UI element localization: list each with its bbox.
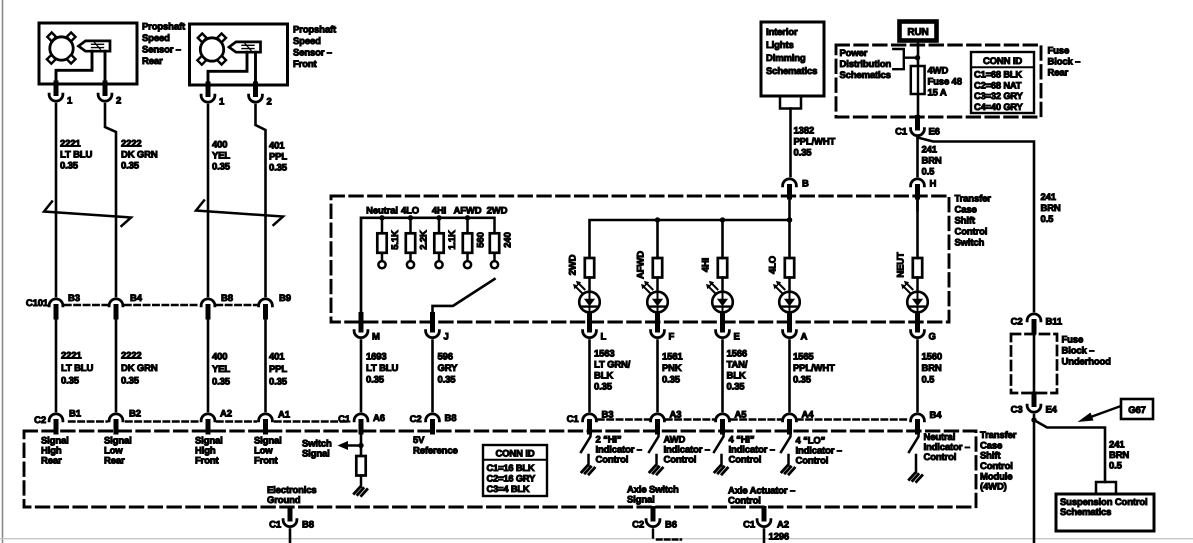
CONN ID table (module connectors) xyxy=(483,445,547,496)
svg-text:0.35: 0.35 xyxy=(594,382,613,393)
svg-text:C1: C1 xyxy=(895,127,908,138)
svg-text:241: 241 xyxy=(1041,192,1057,203)
svg-text:Control: Control xyxy=(728,496,761,507)
svg-text:0.35: 0.35 xyxy=(366,375,385,386)
switch pin G xyxy=(911,315,936,343)
svg-text:Fuse: Fuse xyxy=(1048,46,1070,57)
dashed stub below B6 xyxy=(653,530,681,540)
svg-text:1693: 1693 xyxy=(366,352,387,363)
connector pin B2 xyxy=(109,409,141,433)
label: Interior Lights Dimming Schematics xyxy=(766,27,817,77)
svg-text:B8: B8 xyxy=(302,520,314,531)
wire label 400 YEL 0.35 (lower) xyxy=(212,352,231,388)
svg-text:1560: 1560 xyxy=(922,352,943,363)
arrow from G67 to ground point xyxy=(1078,407,1120,423)
svg-text:0.35: 0.35 xyxy=(61,376,80,387)
label: Power Distribution Schematics xyxy=(840,48,892,81)
module connector pin B8 xyxy=(410,413,457,432)
svg-text:TAN/: TAN/ xyxy=(727,360,748,371)
switch pin L xyxy=(583,315,607,343)
wire label 1565 PPL/WHT 0.35 xyxy=(793,352,835,386)
wire 2222 (lower) xyxy=(115,317,118,411)
svg-text:2222: 2222 xyxy=(121,351,142,362)
svg-text:Rear: Rear xyxy=(142,56,163,67)
wire from pin L down xyxy=(588,341,591,412)
svg-text:Front: Front xyxy=(254,456,279,467)
svg-text:C2: C2 xyxy=(632,520,644,531)
wire label 1560 BRN 0.5 xyxy=(922,352,943,386)
indicator LED branch NEUT: resistor + LED xyxy=(896,200,928,316)
svg-text:Power: Power xyxy=(840,48,868,59)
svg-text:BRN: BRN xyxy=(1041,203,1061,214)
svg-text:J: J xyxy=(444,332,449,343)
label: Switch Signal xyxy=(302,439,332,460)
svg-text:Propshaft: Propshaft xyxy=(293,25,337,36)
module input label Low Front xyxy=(254,436,282,467)
resistor 5.1K (R Neutral) xyxy=(377,215,401,268)
svg-text:YEL: YEL xyxy=(212,364,230,375)
svg-text:C1=16 BLK: C1=16 BLK xyxy=(487,463,535,473)
connector C101 pin B4 xyxy=(109,293,143,317)
svg-text:Schematics: Schematics xyxy=(766,66,817,77)
svg-text:B9: B9 xyxy=(279,293,291,304)
svg-text:Control: Control xyxy=(955,227,988,238)
svg-text:PPL/WHT: PPL/WHT xyxy=(793,363,835,374)
svg-text:0.5: 0.5 xyxy=(1109,461,1123,472)
svg-text:(4WD): (4WD) xyxy=(980,482,1007,493)
svg-text:B8: B8 xyxy=(221,293,233,304)
svg-text:LT BLU: LT BLU xyxy=(60,150,92,161)
svg-text:1563: 1563 xyxy=(594,349,615,360)
label: Transfer Case Shift Control Module (4WD) xyxy=(980,430,1017,493)
svg-text:A2: A2 xyxy=(777,520,789,531)
wire label 1566 TAN/BLK 0.35 xyxy=(727,349,748,393)
switch pin F xyxy=(651,315,675,343)
svg-text:Transfer: Transfer xyxy=(955,194,992,205)
svg-text:PPL/WHT: PPL/WHT xyxy=(794,137,836,148)
svg-text:RUN: RUN xyxy=(907,27,928,38)
svg-text:C1: C1 xyxy=(743,520,756,531)
svg-text:C1: C1 xyxy=(338,414,351,425)
4 "LO" indicator control switch + ground xyxy=(781,432,795,474)
svg-text:0.35: 0.35 xyxy=(793,375,812,386)
wire label 1561 PNK 0.35 xyxy=(662,352,683,386)
svg-text:C3: C3 xyxy=(1011,405,1023,416)
svg-text:BLK: BLK xyxy=(727,371,746,382)
svg-text:Signal: Signal xyxy=(627,495,655,506)
svg-text:5.1K: 5.1K xyxy=(390,230,401,250)
svg-text:0.35: 0.35 xyxy=(727,382,746,393)
svg-text:C2: C2 xyxy=(410,414,422,425)
wire through underhood fuse block xyxy=(1033,332,1036,396)
module connector pin A5 xyxy=(716,410,748,433)
label: 2 "HI" Indicator Control xyxy=(596,435,642,466)
connector C2 label (module) xyxy=(34,415,46,426)
ground G67 box xyxy=(1121,399,1153,419)
connector C101 pin B8 xyxy=(201,293,233,317)
connector C2 B6 (axle switch signal) xyxy=(632,509,677,531)
svg-text:Neutral: Neutral xyxy=(366,206,398,217)
in-line connector C101 label xyxy=(26,298,49,309)
svg-text:C1: C1 xyxy=(567,414,580,425)
svg-text:0.5: 0.5 xyxy=(1041,214,1055,225)
connector C2 B11 xyxy=(1011,314,1063,332)
wire label 241 BRN 0.5 xyxy=(922,145,942,178)
svg-text:H: H xyxy=(930,179,937,190)
propshaft speed sensor - rear xyxy=(39,23,137,84)
svg-text:DK GRN: DK GRN xyxy=(121,150,158,161)
svg-text:1561: 1561 xyxy=(662,352,683,363)
svg-text:B3: B3 xyxy=(68,293,80,304)
indicator LED branch 4HI: resistor + LED xyxy=(701,220,733,316)
wire pin H to NEUT branch xyxy=(916,197,919,210)
connector C1 B8 (electronics ground) xyxy=(269,509,314,531)
svg-text:Distribution: Distribution xyxy=(840,59,892,70)
svg-text:Control: Control xyxy=(796,456,829,467)
wire from pin E down xyxy=(721,341,724,412)
svg-text:Block –: Block – xyxy=(1048,57,1081,68)
svg-text:Dimming: Dimming xyxy=(766,53,806,64)
wire label 2221 LT BLU 0.35 xyxy=(60,139,92,172)
svg-text:Ground: Ground xyxy=(267,495,301,506)
connector C101 pin B3 xyxy=(49,293,80,317)
switch wiper to pin J xyxy=(433,279,495,322)
svg-text:G67: G67 xyxy=(1128,405,1146,416)
wire below B8 xyxy=(289,530,292,543)
switch pin E xyxy=(716,315,740,343)
resistor 560 (R AFWD) xyxy=(463,215,487,268)
svg-text:401: 401 xyxy=(269,141,285,152)
switch pin A xyxy=(783,315,808,343)
svg-text:1382: 1382 xyxy=(794,126,815,137)
switch position labels Neutral 4LO 4HI AFWD 2WD xyxy=(366,206,507,217)
wire E4 down (241 BRN) xyxy=(1033,415,1036,543)
svg-text:2221: 2221 xyxy=(61,351,82,362)
svg-text:1: 1 xyxy=(219,97,225,108)
module connector pin A4 xyxy=(783,410,815,433)
svg-text:2WD: 2WD xyxy=(568,254,579,275)
svg-text:0.35: 0.35 xyxy=(121,376,140,387)
svg-text:0.35: 0.35 xyxy=(269,163,288,174)
wire label 1382 PPL/WHT 0.35 xyxy=(794,126,836,159)
connector pin 1 (front sensor) xyxy=(201,84,225,108)
svg-text:2: 2 xyxy=(116,96,121,107)
label: Neutral Indicator Control xyxy=(924,432,970,463)
wire from pin G down xyxy=(916,341,919,412)
svg-text:B2: B2 xyxy=(129,409,141,420)
svg-text:B4: B4 xyxy=(130,293,143,304)
svg-text:Case: Case xyxy=(955,205,977,216)
svg-text:BRN: BRN xyxy=(922,363,942,374)
svg-text:4LO: 4LO xyxy=(768,256,779,274)
module connector pin B3 xyxy=(567,410,614,433)
svg-text:A6: A6 xyxy=(373,413,385,424)
svg-text:2: 2 xyxy=(267,97,272,108)
svg-text:B3: B3 xyxy=(602,410,614,421)
label: 4 "LO" Indicator Control xyxy=(796,436,842,467)
svg-text:LT GRN/: LT GRN/ xyxy=(594,360,631,371)
svg-text:241: 241 xyxy=(922,145,938,156)
svg-text:Control: Control xyxy=(664,455,697,466)
wire 401 (lower) xyxy=(264,317,267,411)
svg-text:B11: B11 xyxy=(1046,317,1063,328)
switch signal node: wire, arrow, resistor, ground xyxy=(338,433,368,496)
resistor 1.1K (R 4HI) xyxy=(434,215,458,268)
svg-text:LT BLU: LT BLU xyxy=(366,363,398,374)
fuse block rear (dashed box) xyxy=(836,45,1041,117)
svg-text:C2=68 NAT: C2=68 NAT xyxy=(974,80,1022,90)
svg-text:A4: A4 xyxy=(802,410,815,421)
svg-text:596: 596 xyxy=(438,352,453,363)
module input label High Front xyxy=(195,436,223,467)
module input label Low Rear xyxy=(104,436,132,467)
svg-text:4WD: 4WD xyxy=(928,66,949,77)
svg-text:Front: Front xyxy=(195,456,220,467)
label: 4WD Fuse 48 15 A xyxy=(928,66,962,99)
label: Electronics Ground xyxy=(267,485,317,506)
wire label 401 PPL 0.35 (lower) xyxy=(269,352,288,388)
svg-text:400: 400 xyxy=(212,352,227,363)
wire 1296 below A2 xyxy=(764,530,789,543)
wire 2221 (lower) xyxy=(55,317,58,411)
2 "HI" indicator control switch + ground xyxy=(581,432,595,474)
wire 2222 DK GRN (rear low) xyxy=(105,104,116,296)
svg-text:Schematics: Schematics xyxy=(1060,507,1111,518)
svg-text:Underhood: Underhood xyxy=(1062,357,1112,368)
svg-text:M: M xyxy=(372,332,380,343)
svg-text:PNK: PNK xyxy=(662,363,682,374)
label: Axle Switch Signal xyxy=(627,485,679,506)
wire label 2222 DK GRN 0.35 (lower) xyxy=(121,351,158,387)
svg-text:2WD: 2WD xyxy=(487,206,508,217)
svg-text:2.2K: 2.2K xyxy=(419,230,430,250)
svg-text:Sensor –: Sensor – xyxy=(142,45,181,56)
svg-text:401: 401 xyxy=(269,352,285,363)
svg-text:B1: B1 xyxy=(69,409,82,420)
transfer case shift control module (dashed box) xyxy=(24,431,976,507)
svg-text:0.35: 0.35 xyxy=(662,375,681,386)
label: 5V Reference xyxy=(413,435,458,457)
svg-text:Reference: Reference xyxy=(413,446,458,457)
label: Axle Actuator - Control xyxy=(728,486,795,507)
svg-text:5V: 5V xyxy=(413,435,425,446)
svg-text:Fuse: Fuse xyxy=(1062,335,1084,346)
svg-text:E6: E6 xyxy=(929,127,940,138)
connector C1 E6 xyxy=(895,118,940,138)
label: Propshaft Speed Sensor - Rear xyxy=(142,22,186,68)
wire branch to suspension control xyxy=(1031,417,1105,482)
connector C1 A2 (axle actuator) xyxy=(743,509,789,531)
svg-text:NEUT: NEUT xyxy=(896,252,907,278)
4 "HI" indicator control switch + ground xyxy=(714,432,728,474)
svg-text:Control: Control xyxy=(596,455,629,466)
dashed connector row line xyxy=(69,420,907,422)
svg-text:Shift: Shift xyxy=(955,216,976,227)
svg-text:C4=40 GRY: C4=40 GRY xyxy=(974,102,1024,112)
svg-text:G: G xyxy=(929,332,936,343)
label: Fuse Block - Underhood xyxy=(1062,335,1112,368)
wire label 241 BRN 0.5 (right) xyxy=(1041,192,1061,225)
switch pin M xyxy=(354,315,380,343)
svg-text:0.35: 0.35 xyxy=(269,377,288,388)
svg-text:1565: 1565 xyxy=(793,352,814,363)
resistor 2.2K (R 4LO) xyxy=(406,215,430,268)
transfer case shift control switch (dashed box) xyxy=(331,196,949,322)
svg-text:1: 1 xyxy=(67,96,73,107)
wire 1382 PPL/WHT xyxy=(789,109,792,177)
svg-text:0.35: 0.35 xyxy=(212,162,231,173)
indicator LED branch AFWD: resistor + LED xyxy=(636,220,668,316)
connector pin H xyxy=(911,179,937,198)
resistor 240 (R 2WD) xyxy=(490,218,514,269)
svg-text:B8: B8 xyxy=(445,413,457,424)
svg-text:400: 400 xyxy=(212,140,227,151)
svg-text:E4: E4 xyxy=(1046,405,1058,416)
svg-text:Lights: Lights xyxy=(766,40,794,51)
twisted pair mark (rear) xyxy=(44,202,131,227)
svg-text:F: F xyxy=(669,332,675,343)
svg-text:0.35: 0.35 xyxy=(121,161,140,172)
wire fuse to connector E6 xyxy=(917,94,920,117)
indicator LED branch 4LO: resistor + LED xyxy=(768,256,800,316)
svg-text:PPL: PPL xyxy=(269,364,287,375)
svg-text:B: B xyxy=(802,179,809,190)
connector C101 pin B9 xyxy=(259,293,291,317)
svg-text:C2=16 GRY: C2=16 GRY xyxy=(487,474,537,484)
CONN ID table (fuse block rear) xyxy=(971,52,1034,113)
connector pin A1 xyxy=(259,410,291,433)
svg-text:4LO: 4LO xyxy=(401,206,419,217)
LED supply bus wire xyxy=(590,217,793,258)
svg-text:1296: 1296 xyxy=(769,532,790,543)
svg-text:A2: A2 xyxy=(220,409,232,420)
svg-text:0.35: 0.35 xyxy=(438,375,457,386)
svg-text:Block –: Block – xyxy=(1062,346,1095,357)
label: Propshaft Speed Sensor - Front xyxy=(293,25,337,71)
power distribution bracket xyxy=(893,49,920,69)
svg-text:0.35: 0.35 xyxy=(212,377,231,388)
label: Transfer Case Shift Control Switch xyxy=(955,194,992,249)
svg-text:GRY: GRY xyxy=(438,363,459,374)
wire from pin A down xyxy=(788,341,791,412)
svg-text:C2: C2 xyxy=(1011,317,1023,328)
switch resistor bus wire xyxy=(361,218,494,322)
svg-text:1566: 1566 xyxy=(727,349,748,360)
svg-text:A5: A5 xyxy=(735,410,748,421)
wire RUN to fuse xyxy=(917,43,920,67)
svg-text:240: 240 xyxy=(503,232,514,247)
connector pin A2 xyxy=(201,409,232,433)
svg-text:B6: B6 xyxy=(665,520,677,531)
wire pin B to LED bus xyxy=(787,197,792,258)
svg-text:BLK: BLK xyxy=(594,371,613,382)
svg-text:0.5: 0.5 xyxy=(922,167,936,178)
svg-text:A: A xyxy=(801,332,808,343)
label: AWD Indicator Control xyxy=(664,435,710,466)
svg-text:C1=68 BLK: C1=68 BLK xyxy=(974,70,1022,80)
wire label 401 PPL 0.35 xyxy=(269,141,288,174)
connector pin B1 xyxy=(49,409,82,433)
svg-text:Sensor –: Sensor – xyxy=(293,48,332,59)
label: Suspension Control Schematics xyxy=(1060,497,1148,518)
indicator LED branch 2WD: resistor + LED xyxy=(568,254,600,316)
svg-text:AFWD: AFWD xyxy=(454,206,482,217)
twisted pair mark (front) xyxy=(196,201,283,226)
svg-text:BRN: BRN xyxy=(1109,450,1129,461)
wire label 1693 LT BLU 0.35 xyxy=(366,352,398,386)
ignition RUN box xyxy=(900,22,937,41)
svg-text:Control: Control xyxy=(729,455,762,466)
wire label 241 BRN 0.5 (suspension) xyxy=(1109,440,1129,472)
svg-text:Fuse 48: Fuse 48 xyxy=(928,77,962,88)
svg-text:C3=4 BLK: C3=4 BLK xyxy=(487,484,530,494)
wire branch 241 BRN to right xyxy=(918,138,1035,312)
svg-text:LT BLU: LT BLU xyxy=(61,363,93,374)
interior lights dimming schematics box xyxy=(761,22,824,109)
svg-text:AFWD: AFWD xyxy=(636,251,647,279)
dashed connector line C101 xyxy=(65,304,257,306)
svg-text:YEL: YEL xyxy=(212,151,230,162)
wire label 2221 LT BLU 0.35 (lower) xyxy=(61,351,93,387)
label: 4 "HI" Indicator Control xyxy=(729,435,775,466)
svg-text:Control: Control xyxy=(924,452,957,463)
svg-text:L: L xyxy=(601,332,607,343)
label: Fuse Block - Rear xyxy=(1048,46,1081,79)
svg-text:C101: C101 xyxy=(26,298,49,309)
svg-text:15 A: 15 A xyxy=(928,88,947,99)
svg-text:Rear: Rear xyxy=(1048,68,1069,79)
svg-text:DK GRN: DK GRN xyxy=(121,363,158,374)
svg-text:0.35: 0.35 xyxy=(794,148,813,159)
wire from pin M down xyxy=(360,341,363,412)
connector pin 2 (rear sensor) xyxy=(98,83,121,107)
svg-text:0.5: 0.5 xyxy=(922,375,936,386)
connector C3 E4 xyxy=(1011,394,1058,416)
svg-text:A1: A1 xyxy=(278,410,291,421)
module connector pin A3 xyxy=(651,410,682,433)
svg-text:C1: C1 xyxy=(269,520,282,531)
svg-text:PPL: PPL xyxy=(269,152,287,163)
wire label 1563 LT GRN/BLK 0.35 xyxy=(594,349,631,393)
connector pin B xyxy=(783,179,809,198)
svg-text:241: 241 xyxy=(1109,440,1125,451)
wire 2221 LT BLU (rear high) xyxy=(55,104,58,296)
svg-text:A3: A3 xyxy=(670,410,682,421)
svg-text:Interior: Interior xyxy=(766,27,798,38)
svg-text:4HI: 4HI xyxy=(432,206,446,217)
wire E6 down to pin H xyxy=(916,139,919,176)
switch pin J xyxy=(426,315,449,343)
module input label High Rear xyxy=(41,436,69,467)
wire 401 PPL (front low) xyxy=(256,105,266,296)
svg-text:560: 560 xyxy=(476,232,487,247)
svg-text:Front: Front xyxy=(293,59,318,70)
svg-text:CONN ID: CONN ID xyxy=(495,449,534,460)
wire from pin J down xyxy=(431,341,434,412)
connector pin 1 (rear sensor) xyxy=(49,83,73,107)
svg-text:Rear: Rear xyxy=(104,456,125,467)
svg-text:4HI: 4HI xyxy=(701,258,712,272)
wire 400 (lower) xyxy=(207,317,210,411)
module connector pin A6 xyxy=(338,413,385,432)
svg-text:Speed: Speed xyxy=(142,33,170,44)
suspension control schematics box xyxy=(1056,482,1154,531)
svg-text:BRN: BRN xyxy=(922,156,942,167)
svg-text:1.1K: 1.1K xyxy=(447,230,458,250)
propshaft speed sensor - front xyxy=(190,24,288,85)
svg-text:0.35: 0.35 xyxy=(60,161,79,172)
svg-text:Speed: Speed xyxy=(293,36,321,47)
